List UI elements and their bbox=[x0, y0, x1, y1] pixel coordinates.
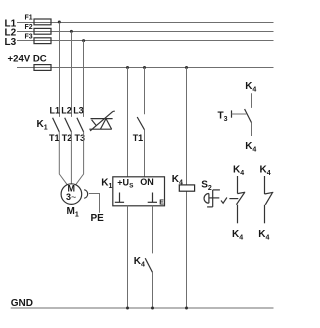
wire PE bbox=[89, 194, 100, 213]
svg-text:T3: T3 bbox=[218, 111, 228, 124]
svg-text:K4: K4 bbox=[134, 256, 145, 269]
node +24V junction B bbox=[143, 66, 146, 69]
node GND junction B bbox=[151, 307, 154, 310]
wire coil branch bbox=[186, 68, 188, 309]
contact K1 pole 1 bbox=[53, 118, 60, 132]
svg-text:M1: M1 bbox=[67, 206, 79, 219]
node GND junction A bbox=[126, 307, 129, 310]
wire L2 rail bbox=[17, 31, 274, 33]
node +24V junction C bbox=[185, 66, 188, 69]
T3 link tick bbox=[231, 110, 233, 117]
PE frame arc bbox=[84, 190, 87, 199]
wire phase drop 1 bbox=[59, 23, 61, 117]
svg-text:F2: F2 bbox=[25, 24, 33, 31]
node L1 junction bbox=[58, 21, 61, 24]
svg-text:+24V DC: +24V DC bbox=[8, 53, 47, 64]
wire motor lead 3 bbox=[76, 132, 84, 185]
svg-text:T2: T2 bbox=[62, 133, 73, 143]
motor M1 circle bbox=[61, 184, 82, 205]
wire box output left bbox=[127, 206, 129, 308]
svg-text:L3: L3 bbox=[5, 37, 17, 48]
wire phase drop 3 bbox=[83, 41, 85, 117]
svg-text:K4: K4 bbox=[245, 81, 256, 94]
svg-text:E: E bbox=[159, 200, 164, 207]
wire box output right upper bbox=[152, 206, 154, 254]
svg-text:S2: S2 bbox=[201, 180, 212, 193]
svg-text:ON: ON bbox=[140, 177, 154, 187]
node +24V junction A bbox=[126, 66, 129, 69]
wire phase drop 2 bbox=[71, 32, 73, 117]
svg-text:K1: K1 bbox=[101, 177, 112, 190]
fuse F1 bbox=[25, 15, 52, 25]
wire +24V rail bbox=[17, 67, 274, 69]
pin ground tack left bbox=[115, 193, 124, 203]
switch S2 actuator bbox=[204, 190, 220, 207]
contact T1 bbox=[137, 117, 144, 130]
svg-text:K4: K4 bbox=[233, 164, 244, 177]
wire Us supply drop bbox=[127, 68, 129, 177]
svg-text:F1: F1 bbox=[25, 15, 33, 22]
node L3 junction bbox=[82, 39, 85, 42]
wire box output right lower bbox=[152, 272, 154, 308]
wire L1 rail bbox=[17, 22, 274, 24]
svg-text:L2: L2 bbox=[61, 105, 72, 115]
wire T3 contact lower bbox=[251, 123, 253, 136]
checkmark bbox=[221, 198, 227, 204]
svg-text:L3: L3 bbox=[73, 105, 84, 115]
svg-text:+US: +US bbox=[117, 177, 134, 189]
node L2 junction bbox=[70, 30, 73, 33]
svg-text:K4: K4 bbox=[245, 141, 256, 154]
svg-text:K4: K4 bbox=[232, 229, 243, 242]
svg-text:T1: T1 bbox=[133, 133, 144, 143]
wire T1 branch lower bbox=[144, 130, 146, 177]
contact K1 pole 2 bbox=[65, 118, 72, 132]
relay U1 box bbox=[113, 177, 165, 206]
contact K4 NC bbox=[229, 176, 245, 223]
pin ground tack E bbox=[148, 193, 157, 203]
svg-text:PE: PE bbox=[91, 213, 105, 224]
wire T1 branch upper bbox=[144, 68, 146, 115]
svg-text:3~: 3~ bbox=[66, 192, 76, 202]
contact K4/T3 bbox=[245, 109, 252, 123]
wire motor lead 1 bbox=[59, 132, 67, 185]
svg-text:GND: GND bbox=[11, 298, 33, 309]
svg-text:F3: F3 bbox=[25, 33, 33, 40]
svg-text:K4: K4 bbox=[260, 164, 271, 177]
wire T3 link bbox=[232, 113, 247, 115]
contact K4 NO bbox=[265, 176, 274, 223]
svg-text:L1: L1 bbox=[50, 105, 61, 115]
fuse F2 bbox=[25, 24, 52, 34]
fuse F3 bbox=[25, 33, 52, 43]
svg-text:T1: T1 bbox=[49, 133, 60, 143]
terminal +24V bbox=[34, 65, 51, 71]
contact K4 mid bbox=[145, 258, 152, 272]
node GND junction C bbox=[185, 307, 188, 310]
wire GND rail bbox=[11, 307, 274, 309]
coil K4 bbox=[179, 185, 194, 191]
svg-text:K1: K1 bbox=[37, 119, 48, 132]
contact K1 pole 3 bbox=[77, 118, 84, 132]
wire L3 rail bbox=[17, 40, 274, 42]
svg-text:K4: K4 bbox=[258, 229, 269, 242]
wire T3 contact upper bbox=[251, 93, 253, 108]
star-delta symbol bbox=[89, 111, 115, 131]
wire motor lead 2 bbox=[70, 132, 72, 184]
